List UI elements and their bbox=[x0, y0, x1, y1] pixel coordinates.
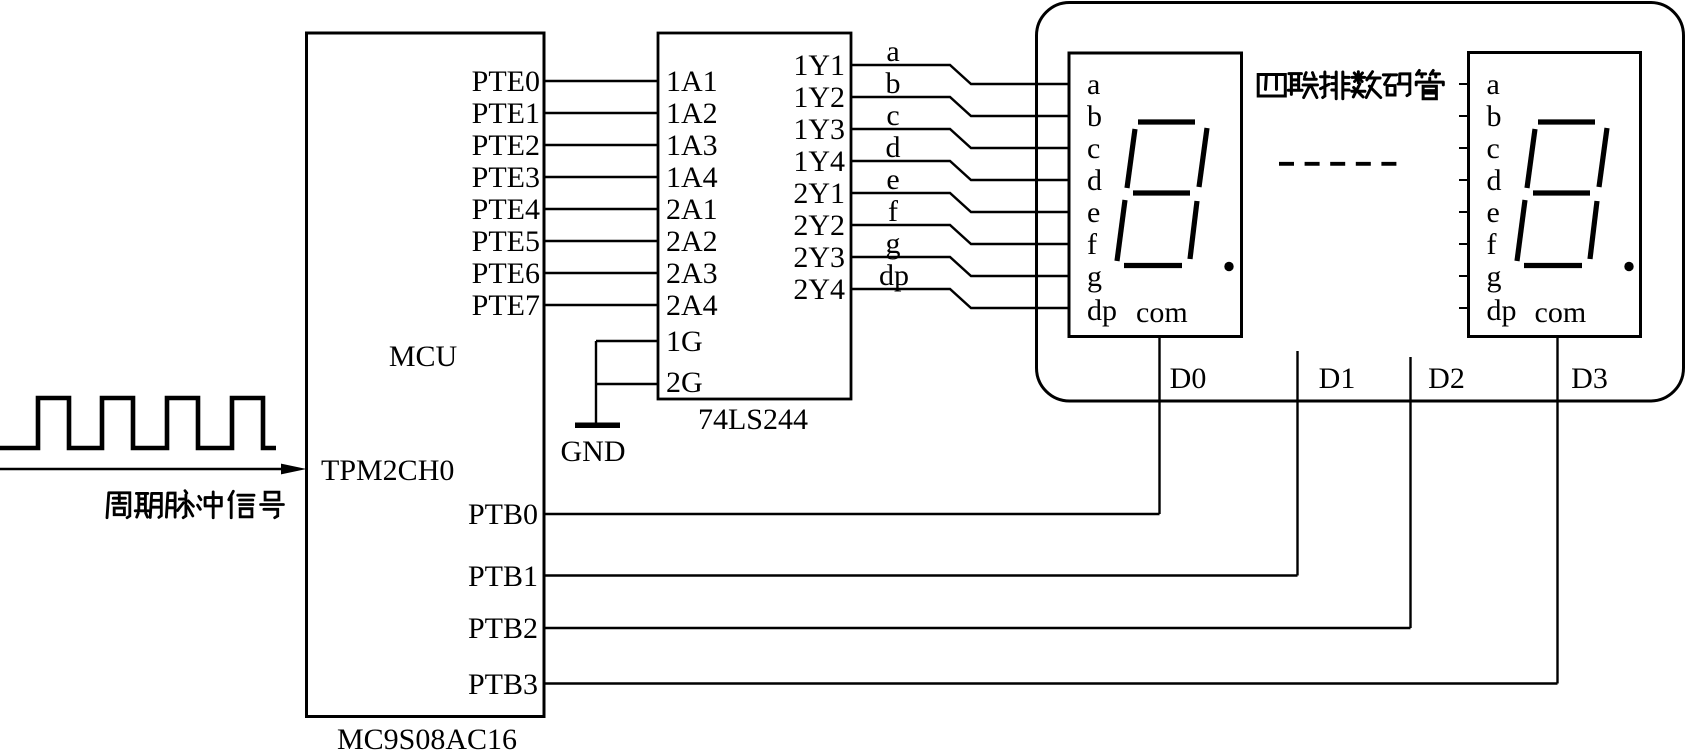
svg-text:TPM2CH0: TPM2CH0 bbox=[321, 454, 454, 487]
glyph 期 bbox=[135, 493, 161, 517]
display module outer rounded box bbox=[1037, 3, 1684, 402]
svg-text:e: e bbox=[886, 163, 899, 196]
arrowhead at TPM2CH0 bbox=[281, 464, 307, 475]
pin labels PTB0-PTB3 bbox=[468, 498, 538, 701]
wire ground vertical bbox=[595, 341, 597, 424]
svg-text:2A4: 2A4 bbox=[666, 289, 718, 322]
glyph 管 bbox=[1416, 70, 1443, 98]
pin labels 1A1-2A4 1G 2G bbox=[666, 65, 718, 399]
svg-text:f: f bbox=[1087, 228, 1097, 261]
svg-text:g: g bbox=[1087, 260, 1102, 293]
svg-text:e: e bbox=[1087, 196, 1100, 229]
7-segment display DS1 box bbox=[1069, 53, 1242, 337]
wires PTE0-PTE7 to 1A1-2A4 bbox=[544, 81, 658, 305]
svg-text:PTB3: PTB3 bbox=[468, 668, 538, 701]
svg-text:1Y3: 1Y3 bbox=[793, 113, 845, 146]
svg-text:1Y4: 1Y4 bbox=[793, 145, 845, 178]
svg-text:g: g bbox=[886, 227, 901, 260]
ground symbol bbox=[575, 423, 620, 429]
DS1 segment digit bbox=[1117, 122, 1207, 266]
svg-text:d: d bbox=[1087, 164, 1102, 197]
svg-text:PTE2: PTE2 bbox=[472, 129, 540, 162]
glyph 四 bbox=[1258, 75, 1285, 96]
svg-text:d: d bbox=[1487, 164, 1502, 197]
svg-text:D0: D0 bbox=[1170, 362, 1207, 395]
wire D1 vertical bbox=[1296, 351, 1298, 576]
glyph 联 bbox=[1288, 73, 1317, 98]
glyph 码 bbox=[1383, 74, 1409, 96]
wire segment g bbox=[851, 257, 1069, 276]
wire segment d bbox=[851, 161, 1069, 180]
svg-text:2A1: 2A1 bbox=[666, 193, 718, 226]
pulse waveform (periodic square wave input) bbox=[0, 398, 276, 448]
svg-text:f: f bbox=[1487, 228, 1497, 261]
glyph 数 bbox=[1352, 72, 1381, 98]
wire segment b bbox=[851, 97, 1069, 116]
svg-text:dp: dp bbox=[879, 259, 909, 292]
DS2 decimal point bbox=[1624, 262, 1633, 271]
DS1 decimal point bbox=[1224, 262, 1233, 271]
svg-text:2Y3: 2Y3 bbox=[793, 241, 845, 274]
wire PTB1 to D1 bbox=[544, 574, 1298, 576]
svg-text:1A4: 1A4 bbox=[666, 161, 718, 194]
pin labels 1Y1-2Y4 bbox=[793, 49, 845, 306]
svg-text:b: b bbox=[886, 67, 901, 100]
pin labels PTE0-PTE7 bbox=[472, 65, 540, 322]
svg-text:PTB2: PTB2 bbox=[468, 612, 538, 645]
svg-text:d: d bbox=[886, 131, 901, 164]
svg-text:74LS244: 74LS244 bbox=[698, 403, 808, 436]
DS2 pin stubs bbox=[1459, 84, 1469, 308]
wire segment a from 1Y1 to display pin a bbox=[851, 65, 1069, 84]
svg-text:e: e bbox=[1487, 196, 1500, 229]
7-segment display DS2 box bbox=[1469, 53, 1641, 337]
svg-text:2Y1: 2Y1 bbox=[793, 177, 845, 210]
svg-text:1Y2: 1Y2 bbox=[793, 81, 845, 114]
svg-text:1A1: 1A1 bbox=[666, 65, 718, 98]
svg-text:MC9S08AC16: MC9S08AC16 bbox=[337, 723, 517, 752]
svg-text:g: g bbox=[1487, 260, 1502, 293]
ellipsis dashes between digits bbox=[1279, 162, 1397, 166]
svg-text:f: f bbox=[888, 195, 898, 228]
wire D0 com vertical bbox=[1158, 337, 1160, 515]
wire D2 vertical bbox=[1409, 357, 1411, 628]
wire 1G to ground bbox=[596, 340, 658, 342]
glyph 信 bbox=[229, 491, 254, 517]
svg-text:GND: GND bbox=[561, 435, 626, 468]
label 周期脉冲信号 (periodic pulse signal) bbox=[107, 491, 283, 518]
svg-text:2A2: 2A2 bbox=[666, 225, 718, 258]
wire PTB3 to D3 bbox=[544, 682, 1558, 684]
svg-text:PTB1: PTB1 bbox=[468, 560, 538, 593]
svg-text:1A3: 1A3 bbox=[666, 129, 718, 162]
svg-text:a: a bbox=[886, 35, 899, 68]
svg-text:1A2: 1A2 bbox=[666, 97, 718, 130]
glyph 冲 bbox=[198, 492, 222, 518]
svg-text:1Y1: 1Y1 bbox=[793, 49, 845, 82]
svg-text:dp: dp bbox=[1487, 294, 1517, 327]
svg-text:c: c bbox=[1087, 132, 1100, 165]
svg-text:2A3: 2A3 bbox=[666, 257, 718, 290]
wire 2G to ground bbox=[596, 383, 658, 385]
svg-text:PTB0: PTB0 bbox=[468, 498, 538, 531]
DS1 pin labels a-dp com bbox=[1087, 68, 1188, 329]
DS2 segment digit bbox=[1517, 122, 1607, 266]
svg-text:D1: D1 bbox=[1319, 362, 1356, 395]
svg-text:a: a bbox=[1087, 68, 1100, 101]
svg-text:PTE7: PTE7 bbox=[472, 289, 540, 322]
wire segment e bbox=[851, 193, 1069, 212]
wire PTB0 to D0 bbox=[544, 513, 1160, 515]
svg-text:D3: D3 bbox=[1571, 362, 1608, 395]
MCU U1 box bbox=[307, 33, 545, 717]
wire segment f bbox=[851, 225, 1069, 244]
label 四联排数码管 (four-digit display) bbox=[1258, 70, 1443, 98]
svg-text:com: com bbox=[1136, 296, 1188, 329]
svg-text:PTE4: PTE4 bbox=[472, 193, 540, 226]
wire segment dp bbox=[851, 289, 1069, 308]
svg-text:2Y2: 2Y2 bbox=[793, 209, 845, 242]
svg-text:a: a bbox=[1487, 68, 1500, 101]
wire segment c bbox=[851, 129, 1069, 148]
glyph 脉 bbox=[166, 491, 193, 518]
glyph 周 bbox=[107, 493, 130, 518]
wire PTB2 to D2 bbox=[544, 627, 1411, 629]
buffer U2 74LS244 box bbox=[658, 33, 851, 399]
svg-text:1G: 1G bbox=[666, 325, 703, 358]
svg-text:dp: dp bbox=[1087, 294, 1117, 327]
svg-text:PTE6: PTE6 bbox=[472, 257, 540, 290]
svg-text:com: com bbox=[1535, 296, 1587, 329]
DS2 pin labels a-dp com bbox=[1487, 68, 1587, 329]
svg-text:PTE0: PTE0 bbox=[472, 65, 540, 98]
svg-text:2Y4: 2Y4 bbox=[793, 273, 845, 306]
glyph 号 bbox=[261, 492, 284, 518]
svg-text:PTE3: PTE3 bbox=[472, 161, 540, 194]
svg-text:D2: D2 bbox=[1428, 362, 1465, 395]
svg-text:c: c bbox=[886, 99, 899, 132]
wire input arrow to TPM2CH0 bbox=[0, 468, 288, 470]
svg-text:PTE1: PTE1 bbox=[472, 97, 540, 130]
glyph 排 bbox=[1320, 72, 1349, 99]
svg-text:2G: 2G bbox=[666, 366, 703, 399]
svg-text:c: c bbox=[1487, 132, 1500, 165]
wire D3 com vertical bbox=[1556, 337, 1558, 684]
svg-text:b: b bbox=[1487, 100, 1502, 133]
svg-text:MCU: MCU bbox=[389, 340, 458, 373]
svg-text:PTE5: PTE5 bbox=[472, 225, 540, 258]
svg-text:b: b bbox=[1087, 100, 1102, 133]
